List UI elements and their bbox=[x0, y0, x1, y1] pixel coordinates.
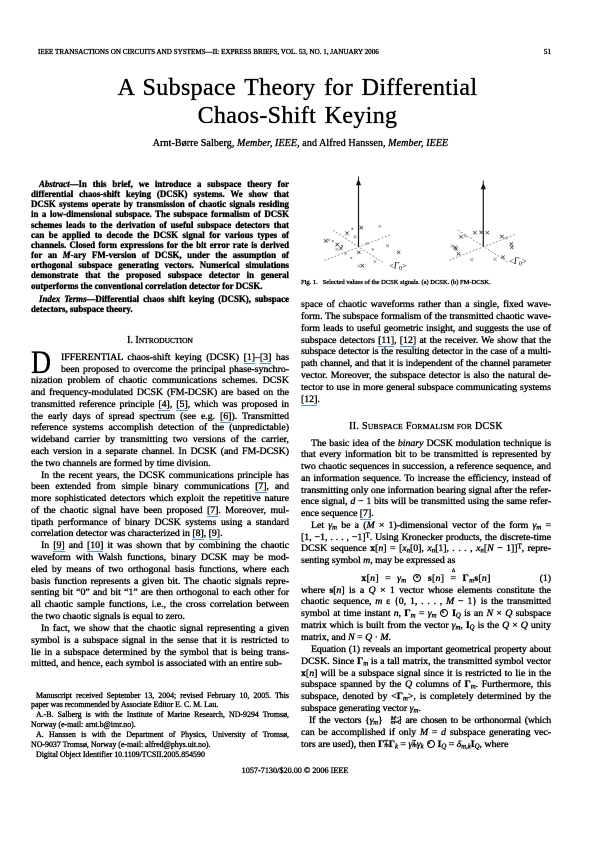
Fig. 1: 3-D scatter plots of DCSK signal values bbox=[300, 170, 561, 278]
plot (a) DCSK: vertical axis arrow, two oblique axes, scatter markers, subspace label bbox=[324, 177, 407, 273]
svg-text:<Γ0>: <Γ0> bbox=[509, 256, 527, 268]
plot (b) FM-DCSK: vertical axis arrow, two oblique axes, ring of scatter markers, subspace label bbox=[449, 181, 527, 268]
svg-text:<Γ0>: <Γ0> bbox=[389, 261, 407, 273]
